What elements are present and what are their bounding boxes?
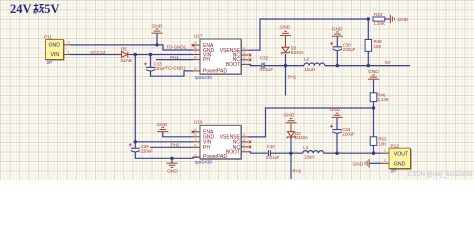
svg-text:15uH: 15uH — [305, 67, 316, 72]
svg-text:220uF: 220uF — [343, 47, 356, 52]
svg-text:GND: GND — [353, 161, 364, 167]
svg-text:C40: C40 — [267, 144, 276, 149]
svg-text:7: 7 — [194, 137, 197, 142]
svg-text:tps5430: tps5430 — [195, 160, 212, 166]
svg-text:L3: L3 — [303, 145, 308, 150]
svg-text:GND: GND — [398, 17, 409, 23]
svg-text:24V: 24V — [10, 2, 32, 16]
svg-text:0.01uF: 0.01uF — [260, 67, 274, 72]
svg-text:GND: GND — [167, 168, 178, 174]
svg-text:GND: GND — [284, 113, 295, 119]
svg-text:9: 9 — [194, 152, 197, 157]
svg-text:PH1: PH1 — [170, 55, 179, 60]
svg-text:C32: C32 — [260, 56, 269, 61]
svg-text:D5: D5 — [121, 47, 127, 52]
svg-text:S2AB: S2AB — [121, 58, 132, 63]
svg-text:tps5430: tps5430 — [195, 75, 212, 81]
svg-text:P12: P12 — [391, 144, 400, 149]
svg-text:GND: GND — [280, 25, 291, 31]
svg-text:GND: GND — [330, 107, 341, 113]
svg-text:0.01uF: 0.01uF — [266, 155, 280, 160]
svg-text:U17: U17 — [194, 33, 203, 38]
svg-text:15uH: 15uH — [304, 154, 315, 159]
svg-text:PH2: PH2 — [171, 142, 180, 147]
svg-text:VCC24: VCC24 — [90, 50, 106, 56]
svg-text:2: 2 — [384, 158, 387, 163]
svg-text:1.24K: 1.24K — [374, 21, 386, 26]
svg-text:10K: 10K — [374, 44, 382, 49]
svg-text:B340A: B340A — [295, 135, 308, 140]
svg-text:L2: L2 — [304, 57, 309, 62]
svg-text:PowerPAD: PowerPAD — [203, 69, 227, 75]
svg-text:8: 8 — [194, 142, 197, 147]
svg-text:1: 1 — [243, 147, 246, 152]
svg-text:1.24K: 1.24K — [377, 97, 389, 102]
svg-text:220uF: 220uF — [141, 148, 154, 153]
svg-text:CSDN @mQ_61022809: CSDN @mQ_61022809 — [408, 172, 473, 178]
svg-text:2P: 2P — [391, 169, 397, 175]
svg-text:GND: GND — [368, 69, 379, 75]
svg-text:5V: 5V — [44, 2, 59, 16]
svg-text:R43: R43 — [374, 12, 383, 17]
svg-text:1: 1 — [68, 49, 71, 54]
svg-text:VOUT: VOUT — [394, 151, 409, 157]
svg-text:1: 1 — [384, 148, 387, 153]
svg-text:U19: U19 — [194, 119, 203, 124]
svg-text:PH: PH — [203, 145, 210, 151]
svg-text:9: 9 — [194, 66, 197, 71]
svg-text:PH: PH — [203, 57, 210, 63]
svg-text:2: 2 — [68, 40, 71, 45]
svg-text:PH1: PH1 — [288, 74, 297, 79]
svg-text:GND: GND — [157, 122, 168, 128]
svg-text:GND: GND — [332, 26, 343, 32]
svg-text:5V: 5V — [385, 60, 392, 66]
svg-text:BOOT: BOOT — [226, 150, 240, 156]
svg-text:10K: 10K — [378, 141, 386, 146]
svg-text:VIN: VIN — [51, 52, 60, 58]
svg-text:BOOT: BOOT — [226, 62, 240, 68]
svg-text:TO-GND1: TO-GND1 — [166, 65, 187, 70]
svg-text:TO-GND1: TO-GND1 — [166, 45, 187, 50]
svg-text:8: 8 — [194, 55, 197, 60]
svg-text:GND: GND — [152, 23, 163, 29]
svg-text:PH2: PH2 — [293, 168, 302, 173]
svg-text:PowerPAD: PowerPAD — [203, 154, 227, 160]
svg-text:220uF: 220uF — [154, 66, 167, 71]
svg-text:GND: GND — [49, 43, 61, 49]
svg-text:GND: GND — [394, 161, 406, 167]
svg-text:B340A: B340A — [291, 50, 304, 55]
svg-text:220uF: 220uF — [342, 131, 355, 136]
svg-text:2P: 2P — [47, 60, 53, 66]
svg-text:P11: P11 — [44, 35, 52, 40]
